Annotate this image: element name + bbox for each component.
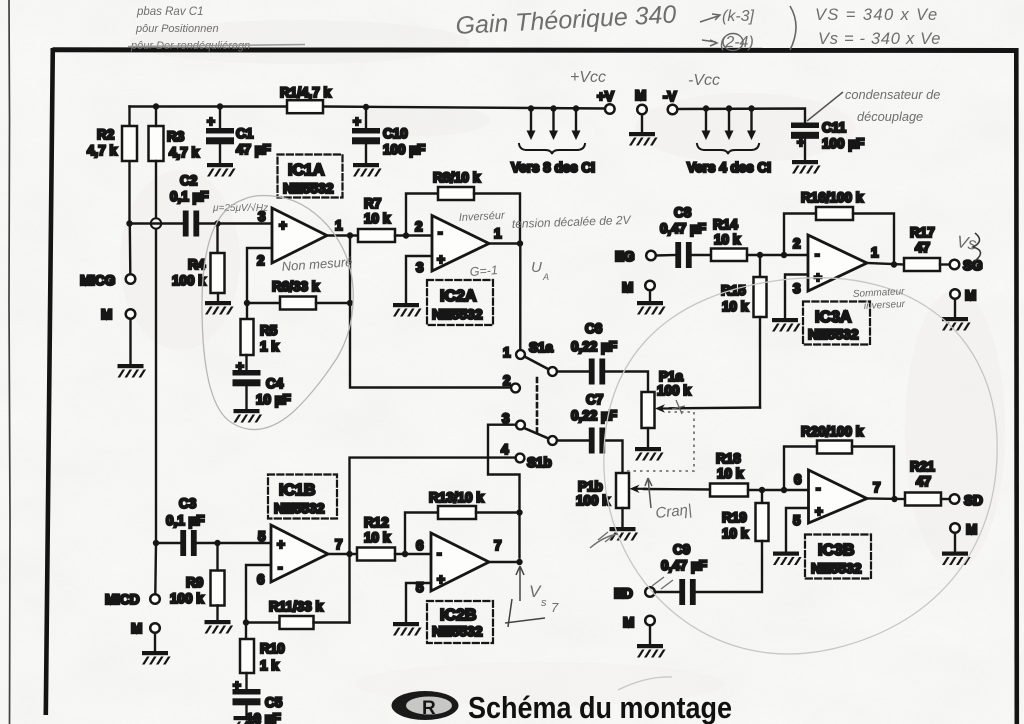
svg-text:R2: R2 — [97, 127, 114, 142]
op-amp IC3A — [808, 235, 867, 291]
wire IC3B output — [867, 497, 905, 500]
svg-text:R5: R5 — [260, 323, 278, 338]
node R6 right — [347, 300, 353, 306]
wire M power to ground — [641, 114, 643, 132]
svg-text:IC1B: IC1B — [279, 482, 315, 499]
capacitor C5 — [233, 689, 261, 705]
capacitor C10 — [365, 107, 367, 128]
dashed box IC3A — [803, 302, 870, 345]
wire IC1B output to R12 — [328, 553, 357, 555]
node IC1A output — [347, 232, 353, 238]
arrow 2-4 — [702, 40, 717, 46]
scanner page-edge artifact line — [9, 0, 10, 724]
svg-text:R16/100 k: R16/100 k — [801, 190, 864, 205]
terminal MICG — [126, 274, 136, 284]
magazine logo ellipse — [392, 691, 459, 720]
svg-text:M: M — [966, 522, 977, 537]
node R18-R19 — [759, 487, 765, 493]
resistor R14 — [711, 249, 747, 262]
svg-text:Vers 8 des CI: Vers 8 des CI — [511, 160, 595, 175]
svg-text:-: - — [278, 560, 283, 575]
switch common S1b — [548, 436, 557, 445]
wire IC2B pin5 to ground — [406, 583, 431, 622]
svg-text:2: 2 — [257, 253, 265, 268]
dashed box IC1B — [268, 475, 337, 519]
wire C9 to ED — [655, 591, 680, 593]
resistor R9 — [216, 543, 218, 571]
svg-text:6: 6 — [416, 538, 424, 553]
svg-text:R3: R3 — [167, 129, 185, 144]
wire R13 feedback right — [476, 511, 520, 513]
svg-text:-V: -V — [663, 89, 677, 104]
svg-text:7: 7 — [335, 537, 343, 552]
wire C11 to ground — [804, 140, 806, 161]
wire -V rail to C11 — [677, 109, 805, 123]
wire R13 feedback left — [405, 513, 438, 555]
wire R14 to IC3A pin2 — [747, 254, 808, 256]
wiper arrow P1a — [661, 407, 672, 409]
wire P1b wiper to R18 — [644, 488, 710, 491]
ground P1b — [610, 527, 639, 541]
wire IC3A output — [867, 263, 904, 265]
ground M ed — [637, 644, 666, 658]
svg-text:+V: +V — [597, 89, 614, 104]
svg-text:10 k: 10 k — [364, 530, 391, 545]
wire R19 down to C9 row — [695, 541, 762, 592]
resistor R10 — [245, 623, 247, 640]
svg-text:EG: EG — [615, 249, 635, 264]
svg-text:NE5532: NE5532 — [811, 560, 862, 576]
svg-text:SG: SG — [963, 258, 983, 273]
ground IC2B pin5 — [393, 622, 422, 636]
wire IC1A output to R7 — [327, 234, 358, 236]
svg-text:pôur Positionnen: pôur Positionnen — [135, 23, 219, 35]
ground M sg — [942, 317, 971, 331]
svg-text:+: + — [353, 114, 361, 129]
node C3-R9 — [214, 540, 220, 546]
wire R3 top lead — [155, 107, 157, 127]
wire M ed ground — [649, 626, 651, 645]
svg-text:10 k: 10 k — [714, 232, 741, 247]
svg-text:R19: R19 — [722, 510, 747, 525]
wire IC2B output — [489, 561, 520, 563]
svg-text:C2: C2 — [180, 173, 197, 188]
svg-text:μ=25μV/√Hz: μ=25μV/√Hz — [212, 202, 268, 214]
svg-text:5: 5 — [258, 529, 266, 544]
svg-text:2: 2 — [503, 373, 511, 388]
svg-text:P1a: P1a — [659, 369, 684, 384]
svg-text:0,22 µF: 0,22 µF — [571, 408, 617, 423]
svg-text:+: + — [279, 218, 287, 233]
svg-text:1 k: 1 k — [260, 658, 279, 673]
svg-text:s: s — [541, 597, 547, 609]
node R6-pin2 — [244, 300, 250, 306]
arrow k-3 — [700, 14, 720, 22]
wire M micd ground — [154, 633, 156, 651]
svg-text:R13/10 k: R13/10 k — [429, 490, 484, 505]
wire R15 down to P1a wiper — [759, 317, 761, 408]
svg-text:IC1A: IC1A — [288, 162, 325, 179]
svg-text:C3: C3 — [179, 496, 197, 511]
wire S1b common to C7 — [557, 439, 589, 441]
svg-text:A: A — [542, 272, 549, 282]
terminal ED — [645, 587, 655, 597]
small pencil mark at P1a wiper — [672, 400, 685, 414]
wire M sd ground — [954, 533, 956, 552]
svg-text:-: - — [816, 481, 821, 496]
svg-text:10 µF: 10 µF — [256, 392, 291, 407]
node R14-R15 — [757, 252, 763, 258]
svg-text:100 k: 100 k — [170, 591, 204, 606]
svg-text:-: - — [437, 546, 442, 561]
wire R8 feedback right — [474, 194, 520, 244]
svg-text:IC2B: IC2B — [440, 607, 476, 624]
resistor R6 — [247, 302, 280, 304]
svg-text:+Vcc: +Vcc — [570, 69, 606, 86]
switch contact 2 — [511, 384, 520, 393]
ground P1a — [635, 447, 664, 461]
brace vers 4 — [697, 144, 759, 154]
svg-text:M: M — [635, 88, 646, 103]
capacitor C6 — [589, 359, 605, 385]
dashed box IC3B — [805, 535, 871, 579]
svg-text:G=-1: G=-1 — [469, 263, 498, 279]
wire P1a wiper to R15 bottom — [670, 406, 760, 409]
node MICG row — [126, 220, 132, 226]
svg-text:0,1 µF: 0,1 µF — [166, 513, 205, 528]
svg-text:0,47 µF: 0,47 µF — [660, 221, 706, 236]
svg-text:SD: SD — [964, 493, 983, 508]
wire rail corner down to MICG row — [128, 107, 130, 224]
svg-text:+: + — [207, 114, 215, 129]
ground IC3B pin5 — [773, 552, 802, 566]
svg-text:MICD: MICD — [105, 592, 140, 607]
svg-text:10 k: 10 k — [364, 211, 391, 226]
svg-text:pbas Rav C1: pbas Rav C1 — [136, 6, 203, 18]
svg-text:6: 6 — [257, 572, 265, 587]
node R11-pin6 — [243, 619, 249, 625]
wire contact4 to IC1B output — [350, 458, 516, 554]
ground C4 — [234, 409, 263, 423]
capacitor C1 — [219, 107, 221, 129]
capacitor C7 — [589, 428, 605, 454]
svg-text:R7: R7 — [364, 196, 381, 211]
wire R12 to IC2B pin6 — [395, 553, 431, 555]
wire M to ground — [129, 319, 131, 364]
svg-text:R6/33 k: R6/33 k — [272, 279, 320, 294]
svg-text:R1/4,7 k: R1/4,7 k — [280, 85, 332, 100]
ground R9 — [205, 620, 234, 634]
svg-text:C6: C6 — [585, 321, 603, 336]
svg-text:(k-3]: (k-3] — [722, 8, 755, 25]
node IC3B output — [891, 496, 897, 502]
svg-text:Inverséur: Inverséur — [459, 210, 507, 224]
svg-text:C10: C10 — [383, 126, 408, 141]
wire IC1A pin2 — [247, 248, 272, 303]
svg-text:100 k: 100 k — [172, 273, 206, 288]
terminal SD — [950, 494, 960, 504]
resistor R1 — [287, 100, 323, 113]
resistor R18 — [710, 484, 748, 497]
svg-text:-Vcc: -Vcc — [688, 72, 720, 89]
svg-text:C7: C7 — [586, 392, 603, 407]
svg-text:R: R — [422, 698, 436, 719]
capacitor C9 — [679, 579, 695, 605]
ground IC3A pin3 — [772, 318, 801, 332]
wire IC3A pin3 to ground — [785, 275, 808, 319]
svg-text:C1: C1 — [236, 126, 254, 141]
wire IC2A out down to S1a contact 1 — [519, 244, 521, 350]
node IC2B output — [516, 559, 522, 565]
wire R18 to IC3B pin6 — [748, 489, 809, 491]
svg-text:MICG: MICG — [80, 273, 115, 288]
svg-text:3: 3 — [416, 260, 424, 275]
svg-text:7: 7 — [551, 600, 559, 615]
svg-text:4,7 k: 4,7 k — [169, 145, 200, 160]
hw arrow Vs7 at IC2B output — [516, 566, 524, 601]
wire R8 feedback left — [406, 194, 438, 236]
svg-text:5: 5 — [793, 513, 801, 528]
svg-text:M: M — [131, 621, 142, 636]
svg-text:47: 47 — [916, 474, 931, 489]
svg-text:0,47 µF: 0,47 µF — [661, 558, 707, 573]
wire R20 feedback left — [784, 447, 817, 491]
wire R11 up to output node — [348, 554, 350, 623]
wire M sg ground — [954, 299, 956, 317]
svg-text:2: 2 — [793, 236, 801, 251]
svg-text:NE5532: NE5532 — [432, 623, 483, 639]
ground M sd — [942, 552, 971, 566]
wire R20 feedback right — [852, 447, 894, 500]
svg-text:NE5532: NE5532 — [432, 306, 483, 322]
wire C8 to R14 — [692, 254, 712, 256]
svg-text:Vers 4 des CI: Vers 4 des CI — [687, 160, 771, 175]
svg-text:R4: R4 — [188, 257, 206, 272]
svg-text:0,22 µF: 0,22 µF — [571, 339, 617, 354]
terminal M eg — [645, 281, 655, 291]
mechanical link dashes S1 — [536, 378, 539, 433]
resistor R20 — [817, 441, 852, 454]
svg-text:-: - — [815, 247, 820, 262]
svg-text:C4: C4 — [266, 376, 284, 391]
terminal M sg — [950, 289, 960, 299]
svg-text:condensateur de: condensateur de — [845, 87, 940, 102]
node R3 bottom MICD row — [153, 540, 159, 546]
svg-text:+: + — [437, 252, 445, 267]
resistor R16 — [816, 207, 853, 220]
svg-text:Schéma du montage: Schéma du montage — [468, 690, 732, 724]
wire IC2A output — [489, 242, 520, 244]
svg-text:7: 7 — [873, 480, 881, 495]
svg-text:Vs = - 340 x Ve: Vs = - 340 x Ve — [818, 30, 941, 48]
svg-text:R17: R17 — [910, 225, 935, 240]
switch blade S1b — [525, 428, 549, 438]
svg-text:R20/100 k: R20/100 k — [801, 424, 864, 439]
wire P1a to ground — [647, 428, 649, 447]
svg-text:47 µF: 47 µF — [236, 142, 271, 157]
svg-text:NE5532: NE5532 — [808, 326, 859, 342]
switch blade S1a — [525, 357, 550, 370]
capacitor C4 — [233, 370, 261, 386]
capacitor C3 — [180, 530, 196, 556]
op-amp IC3B — [809, 470, 868, 523]
svg-text:IC3B: IC3B — [818, 542, 854, 559]
resistor R21 — [905, 493, 941, 506]
svg-text:R18: R18 — [716, 451, 741, 466]
svg-text:0,1 µF: 0,1 µF — [170, 189, 209, 204]
resistor R7 — [358, 229, 395, 242]
node rail-R3 — [153, 103, 159, 109]
svg-text:S1b: S1b — [527, 455, 552, 470]
svg-text:Vs: Vs — [955, 232, 978, 254]
svg-text:NE5532: NE5532 — [283, 180, 334, 196]
potentiometer P1a — [642, 392, 655, 428]
resistor R3 — [149, 126, 164, 161]
svg-text:1: 1 — [871, 245, 879, 260]
switch contact 3 — [516, 421, 525, 430]
svg-text:3: 3 — [793, 281, 801, 296]
svg-text:M: M — [965, 288, 976, 303]
op-amp IC2B — [431, 533, 489, 591]
svg-text:+: + — [277, 537, 285, 552]
svg-text:100 k: 100 k — [576, 493, 610, 508]
terminal SG — [950, 260, 960, 270]
resistor R13 — [438, 506, 476, 519]
ground R4 — [205, 301, 234, 315]
arrows vers 4 des CI — [702, 105, 757, 140]
svg-text:M: M — [622, 280, 633, 295]
svg-text:6: 6 — [794, 472, 802, 487]
svg-text:S1a: S1a — [529, 340, 554, 355]
node R7-R8 — [403, 232, 409, 238]
terminal M micd — [150, 623, 160, 633]
svg-text:R12: R12 — [364, 515, 389, 530]
terminal M ed — [645, 616, 655, 626]
arrows vers 8 des CI — [527, 105, 581, 140]
svg-text:47: 47 — [915, 240, 930, 255]
svg-text:4,7 k: 4,7 k — [87, 143, 118, 158]
wire R3 long vertical down to MICD row with crossover hop — [155, 161, 157, 218]
dashed box IC2B — [427, 601, 493, 643]
svg-text:R10: R10 — [260, 641, 285, 656]
wire MICD row to C3 — [156, 542, 181, 544]
svg-text:découplage: découplage — [857, 109, 923, 124]
svg-text:10 k: 10 k — [722, 526, 749, 541]
switch contact 1 — [516, 350, 525, 359]
terminal MICD — [150, 594, 160, 604]
terminal +V — [605, 104, 615, 114]
terminal M power — [637, 105, 647, 115]
svg-text:2: 2 — [415, 219, 423, 234]
svg-text:100 k: 100 k — [657, 383, 691, 398]
potentiometer P1b — [616, 473, 629, 508]
svg-text:+: + — [233, 678, 241, 693]
wire MICG row left segment — [130, 222, 185, 224]
resistor R5 — [246, 303, 248, 319]
op-amp IC1A — [272, 208, 327, 263]
wire top supply rail right segment to +V — [323, 107, 605, 109]
resistor R12 — [357, 548, 395, 561]
svg-text:P1b: P1b — [578, 479, 603, 494]
hw Cray at P1b — [645, 478, 652, 508]
ground IC2A pin3 — [393, 303, 422, 317]
switch contact 4 — [516, 454, 525, 463]
terminal EG — [646, 251, 656, 261]
ground C10 — [353, 163, 382, 177]
svg-text:IC2A: IC2A — [440, 288, 477, 305]
wiper arrow P1b — [636, 488, 646, 490]
wire IC1A out down to S1a contact 2 — [350, 236, 511, 388]
terminal M micg — [126, 309, 136, 319]
svg-text:NE5532: NE5532 — [274, 500, 325, 516]
wire down to MICD terminal — [154, 543, 157, 594]
ground M eg — [637, 301, 666, 315]
ground power M — [629, 132, 658, 146]
svg-text:+: + — [236, 359, 244, 374]
dashed box IC2A — [427, 280, 493, 325]
wire C3 to IC1B pin5 — [196, 542, 271, 544]
svg-text:4: 4 — [501, 442, 509, 457]
wire M eg ground — [649, 291, 651, 302]
svg-text:C9: C9 — [673, 542, 690, 557]
terminal -V — [668, 105, 678, 115]
svg-text:ED: ED — [614, 586, 633, 601]
svg-text:100 µF: 100 µF — [822, 136, 864, 151]
node rail-C10 — [363, 104, 369, 110]
node C2-R4 — [214, 220, 220, 226]
wire P1b to ground — [621, 508, 623, 527]
node R13-contact3 column — [516, 509, 522, 515]
resistor R19 — [761, 490, 763, 503]
svg-text:C8: C8 — [674, 205, 692, 220]
node feedback R16 — [781, 252, 787, 258]
wire R16 feedback left — [784, 214, 816, 256]
svg-text:10 k: 10 k — [717, 466, 744, 481]
wire R17 to SG — [940, 263, 950, 265]
svg-text:M: M — [623, 615, 634, 630]
wire S1a common to C6 — [557, 370, 589, 372]
faint scratch bottom right — [618, 677, 672, 690]
svg-text:R15: R15 — [721, 283, 746, 298]
node IC2A output — [517, 240, 523, 246]
svg-text:7: 7 — [494, 538, 502, 553]
svg-text:+: + — [815, 504, 823, 519]
node R12-R13 — [402, 551, 408, 557]
wire R16 feedback right — [853, 214, 894, 265]
svg-text:1: 1 — [494, 226, 502, 241]
wire IC1B pin6 — [246, 565, 271, 623]
wire IC2A pin3 to ground — [406, 256, 432, 303]
node IC3A output — [891, 261, 897, 267]
svg-text:R9: R9 — [186, 575, 203, 590]
resistor R2 — [122, 126, 137, 161]
wire contact3 jog to IC2B output column — [488, 425, 520, 558]
svg-text:R14: R14 — [713, 217, 738, 232]
wire top supply rail left segment — [130, 105, 288, 107]
svg-text:1: 1 — [335, 218, 343, 233]
svg-text:R8/10 k: R8/10 k — [433, 170, 481, 185]
wire R7 to IC2A pin2 — [395, 234, 432, 236]
svg-text:inverseur: inverseur — [864, 299, 906, 312]
resistor R11 — [246, 621, 280, 623]
node feedback R20 — [781, 487, 787, 493]
dashed box IC1A — [278, 155, 343, 198]
ground C1 — [207, 163, 236, 177]
wire C7 to P1b — [605, 441, 623, 474]
node rail-C1 — [217, 103, 223, 109]
terminal M sd — [950, 523, 960, 533]
resistor R8 — [438, 187, 474, 200]
